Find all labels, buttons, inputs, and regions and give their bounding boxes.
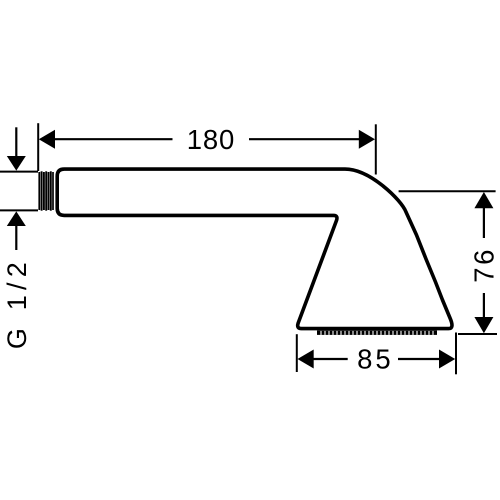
thread dimension: bottom arrow: [7, 211, 26, 226]
dimension 180: dimension line: [52, 138, 173, 140]
spray face plate: [317, 331, 437, 335]
thread dimension: top arrow: [15, 127, 17, 157]
dimension 180: right arrow: [359, 130, 375, 149]
dimension 180: extension lines: [37, 123, 39, 171]
dimension 85: left arrow: [298, 350, 314, 369]
dimension 180: left arrow: [39, 130, 55, 149]
hand shower outline: [57, 169, 452, 329]
dimension 76: dimension line: [483, 205, 485, 238]
dimension 76: bottom arrow: [474, 317, 493, 333]
dimension 85: dimension line: [311, 358, 348, 360]
G 1/2 thread: [39, 171, 53, 210]
svg-text:85: 85: [357, 343, 394, 374]
thread dimension: extension lines: [0, 171, 38, 173]
svg-text:180: 180: [187, 124, 235, 155]
dimension 76: top arrow: [474, 192, 493, 208]
dimension 85: extension lines: [296, 334, 298, 372]
dimension 76: extension lines: [399, 190, 496, 192]
svg-text:76: 76: [469, 247, 500, 283]
dimension 85: right arrow: [439, 350, 455, 369]
svg-text:G 1/2: G 1/2: [2, 257, 32, 349]
